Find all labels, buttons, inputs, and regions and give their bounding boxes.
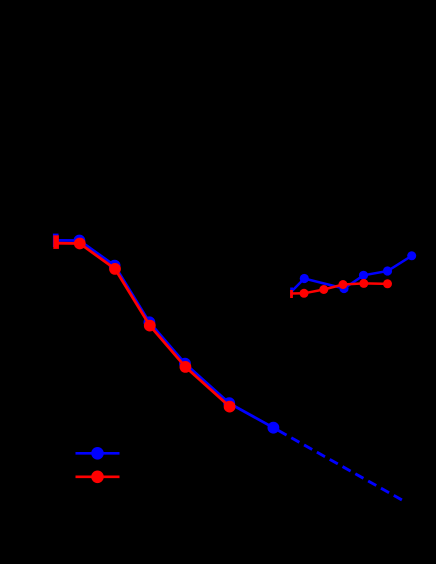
inset blue markers (300, 251, 417, 293)
inset red curve (292, 283, 388, 293)
inset red error cap (290, 290, 293, 298)
inset blue curve (292, 256, 412, 292)
main red error cap (53, 235, 59, 249)
legend red entry (76, 471, 120, 484)
main blue curve (56, 240, 274, 427)
main blue markers (74, 235, 280, 434)
inset red markers (300, 279, 393, 298)
main blue error cap (53, 234, 59, 247)
legend blue entry (76, 447, 120, 460)
main blue dashed projection (273, 428, 402, 500)
inset blue error cap (290, 288, 293, 296)
main red curve (56, 243, 229, 406)
main red markers (74, 238, 236, 413)
